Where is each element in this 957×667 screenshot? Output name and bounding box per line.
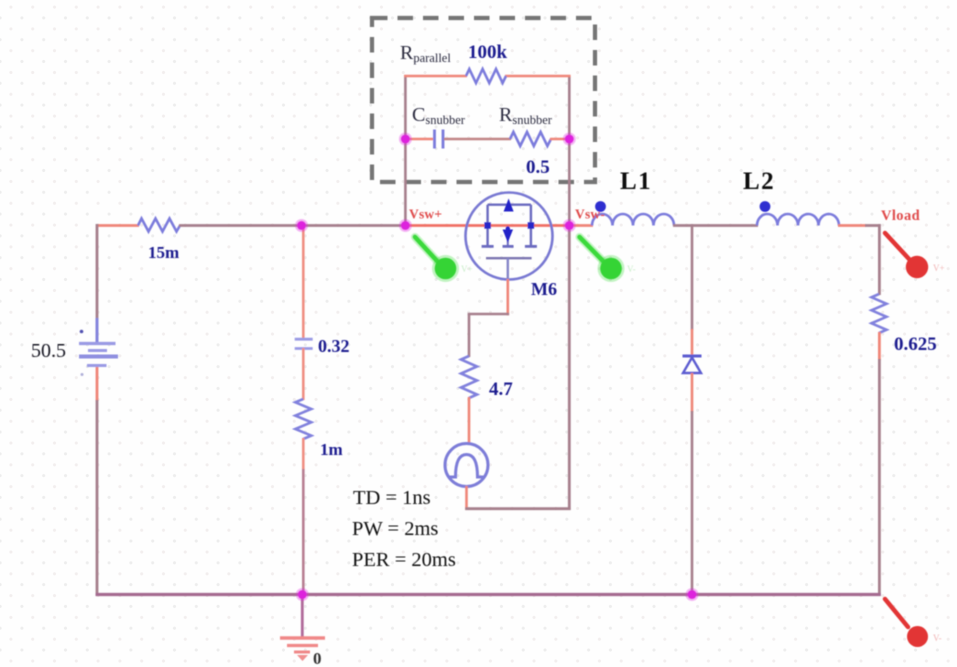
probe marker green Vsw+	[415, 237, 473, 282]
wire: snubber middle center segment	[444, 138, 511, 141]
svg-text:V-: V-	[933, 633, 942, 643]
wire: pulse return horizontal	[465, 507, 570, 510]
node junction snubber right	[563, 133, 576, 146]
value 0.32	[318, 336, 350, 356]
svg-text:M6: M6	[531, 279, 557, 299]
wire: snubber top right segment	[505, 75, 571, 78]
pin dot L1	[595, 201, 606, 212]
wire: snubber top left segment	[404, 75, 467, 78]
voltage source 50.5 battery	[79, 318, 118, 376]
svg-text:1m: 1m	[320, 440, 343, 459]
wire: Vsw- to L1	[569, 224, 593, 227]
wire: main rail through MOSFET	[405, 224, 570, 227]
wire: capacitor to 1m resistor	[302, 348, 305, 400]
wire: diode branch upper	[691, 224, 694, 357]
label Rsnubber	[499, 104, 553, 127]
resistor 1m	[295, 399, 311, 439]
svg-text:0.5: 0.5	[526, 157, 550, 178]
inductor L1	[592, 214, 674, 226]
svg-text:15m: 15m	[148, 243, 179, 262]
wire: snubber right vertical	[568, 76, 571, 226]
svg-text:100k: 100k	[468, 42, 508, 63]
svg-text:L2: L2	[743, 168, 775, 195]
svg-text:Vsw+: Vsw+	[409, 207, 442, 222]
svg-text:V+: V+	[933, 263, 945, 273]
wire: main top rail left of 15m	[97, 224, 139, 227]
node junction Vsw-	[563, 219, 576, 232]
value 50.5	[31, 340, 66, 362]
svg-text:50.5: 50.5	[31, 340, 66, 362]
node junction ground	[296, 588, 309, 601]
svg-text:PW = 2ms: PW = 2ms	[352, 518, 438, 540]
svg-text:Csnubber: Csnubber	[412, 104, 466, 127]
value 1m	[320, 440, 343, 459]
resistor Rparallel 100k	[466, 69, 506, 83]
svg-text:TD = 1ns: TD = 1ns	[353, 487, 431, 509]
svg-text:Rparallel: Rparallel	[400, 42, 451, 65]
value 0.5	[526, 157, 550, 178]
net label Vsw-	[575, 207, 605, 222]
net label Vload	[881, 208, 920, 224]
value 100k	[468, 42, 508, 63]
inductor L2	[757, 214, 839, 226]
resistor 0.625	[872, 294, 887, 333]
resistor 4.7	[461, 356, 477, 398]
wire: gate bend horizontal	[468, 313, 509, 316]
svg-text:V-: V-	[627, 264, 636, 274]
wire: main top rail mid junction to snubber left	[301, 224, 406, 227]
wire: right branch lower	[878, 332, 881, 596]
probe marker green Vsw-	[580, 237, 636, 282]
wire: right branch upper	[878, 224, 881, 295]
value 4.7	[489, 379, 513, 400]
net label Vsw+	[409, 207, 442, 222]
wire: pulse source bottom lead	[465, 486, 468, 510]
label Csnubber	[412, 104, 466, 127]
label Rparallel	[400, 42, 451, 65]
wire: left branch vertical lower	[96, 400, 99, 596]
wire: bottom rail	[96, 593, 881, 596]
svg-text:PER = 20ms: PER = 20ms	[352, 549, 456, 571]
pulse parameter TD	[353, 487, 431, 509]
node junction snubber left	[399, 133, 412, 146]
snubber boundary dashed box	[372, 18, 595, 182]
probe marker red Vload	[885, 233, 945, 278]
value 0.625	[894, 334, 937, 355]
designator M6	[531, 279, 557, 299]
svg-text:0: 0	[313, 649, 322, 667]
wire: gate lead from MOSFET	[506, 279, 509, 315]
node junction diode bottom	[686, 588, 699, 601]
pulse parameter PW	[352, 518, 438, 540]
capacitor 0.32	[295, 339, 313, 348]
wire: MOSFET source vertical down	[568, 226, 571, 511]
wire: snubber left vertical	[404, 76, 407, 226]
wire: gate bend down to 4.7	[468, 314, 471, 357]
wire: snubber middle right segment	[550, 138, 571, 141]
wire: left branch vertical upper	[96, 224, 99, 319]
wire: diode branch lower	[691, 373, 694, 596]
designator L2	[743, 168, 775, 195]
designator L1	[620, 168, 652, 195]
wire: L2 to top-right corner	[838, 224, 881, 227]
svg-text:L1: L1	[620, 168, 652, 195]
diode D	[683, 356, 702, 373]
probe marker red bottom	[885, 599, 942, 647]
value 15m	[148, 243, 179, 262]
wire: snubber middle left segment	[404, 138, 433, 141]
pin dot L2	[760, 201, 771, 212]
svg-text:Vsw-: Vsw-	[575, 207, 605, 222]
resistor Rsnubber 0.5	[510, 132, 551, 146]
svg-text:0.32: 0.32	[318, 336, 350, 356]
MOSFET M6	[466, 193, 553, 281]
wire: L1 to L2	[673, 224, 758, 227]
svg-text:Vload: Vload	[881, 208, 920, 224]
wire: battery bottom lead	[96, 367, 99, 401]
wire: main top rail 15m to mid junction	[179, 224, 302, 227]
ground label 0	[313, 649, 322, 667]
wire: ground stem	[301, 594, 304, 638]
resistor 15m	[138, 219, 180, 232]
svg-text:0.625: 0.625	[894, 334, 937, 355]
wire: middle branch junction to capacitor	[302, 224, 305, 340]
ground 0	[280, 638, 325, 661]
wire: 4.7 to pulse source	[468, 397, 471, 445]
wire: 1m to bottom rail	[302, 438, 305, 596]
svg-text:4.7: 4.7	[489, 379, 513, 400]
capacitor Csnubber	[435, 130, 444, 149]
pulse parameter PER	[352, 549, 456, 571]
node junction Vsw+	[399, 219, 412, 232]
svg-text:V+: V+	[461, 264, 473, 274]
pulse voltage source TD/PW/PER	[445, 444, 488, 487]
svg-text:Rsnubber: Rsnubber	[499, 104, 553, 127]
node junction at mid top rail	[295, 219, 308, 232]
